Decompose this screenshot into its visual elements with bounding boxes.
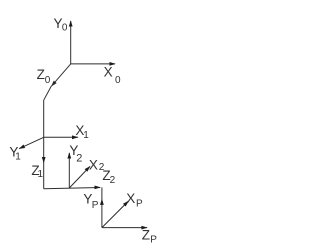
axis Z2 (arrow at end of horizontal link) xyxy=(95,186,101,190)
axis Y0 xyxy=(69,20,73,64)
axis XP xyxy=(102,201,129,228)
label XP xyxy=(126,191,143,210)
label Z0 xyxy=(37,67,51,86)
label X2 xyxy=(89,157,105,173)
svg-text:P: P xyxy=(92,200,99,211)
axis Y1 xyxy=(19,137,44,149)
svg-text:1: 1 xyxy=(38,169,44,180)
axis X2 xyxy=(69,166,90,188)
axis YP (arrow on link 2-P) xyxy=(100,199,104,205)
label Y1 xyxy=(9,144,21,162)
axis Z1 (arrow on link 1-2) xyxy=(42,157,46,163)
svg-text:Z: Z xyxy=(37,67,45,82)
axis ZP xyxy=(102,226,148,230)
axis X0 xyxy=(71,62,116,66)
wire link frame1 to frame2 (horizontal) xyxy=(44,188,100,189)
axis Z0 (arrow on link 0-1) xyxy=(51,81,57,87)
svg-text:Z: Z xyxy=(142,227,150,242)
svg-text:1: 1 xyxy=(15,151,21,162)
label Y0 xyxy=(54,16,68,34)
svg-text:P: P xyxy=(150,235,157,246)
label YP xyxy=(83,192,98,212)
svg-text:1: 1 xyxy=(83,130,89,141)
svg-text:2: 2 xyxy=(110,175,116,186)
svg-text:0: 0 xyxy=(62,23,68,34)
label ZP xyxy=(142,227,158,245)
wire link frame0 to frame1 xyxy=(44,64,71,189)
wire link frame2 to frameP (vertical) xyxy=(101,187,103,227)
label Z2 xyxy=(102,168,115,186)
svg-text:X: X xyxy=(89,157,98,172)
svg-text:0: 0 xyxy=(115,75,121,86)
svg-text:X: X xyxy=(104,64,113,79)
axis Y2 xyxy=(67,152,71,188)
label Z1 xyxy=(31,163,43,180)
svg-text:X: X xyxy=(126,191,135,206)
svg-text:2: 2 xyxy=(76,152,82,164)
svg-text:P: P xyxy=(136,198,143,209)
label X1 xyxy=(75,123,89,141)
axis X1 xyxy=(44,135,79,139)
label Y2 xyxy=(69,143,82,164)
label X0 xyxy=(104,64,121,85)
svg-text:0: 0 xyxy=(45,75,51,86)
